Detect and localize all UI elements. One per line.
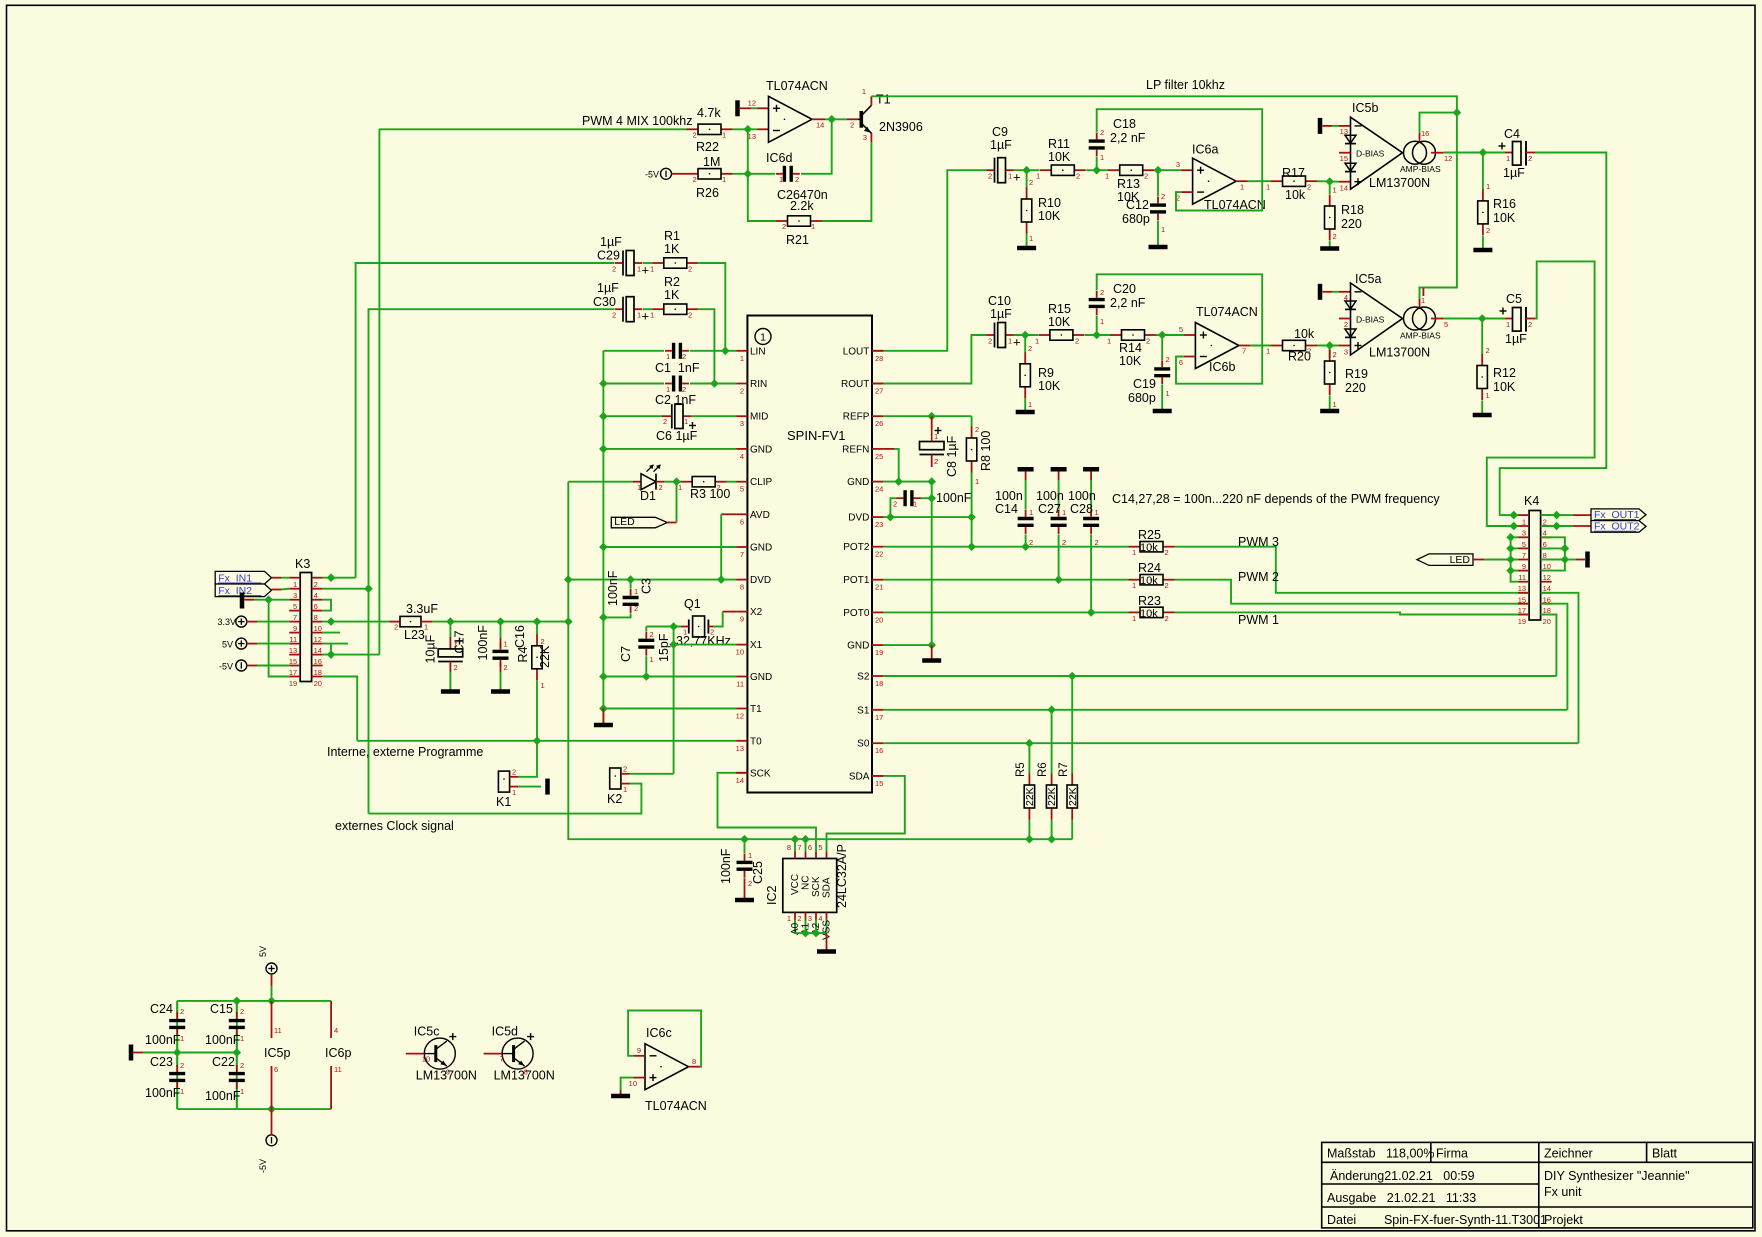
svg-text:1: 1 bbox=[1028, 400, 1032, 409]
svg-text:10K: 10K bbox=[1048, 315, 1071, 329]
svg-text:S2: S2 bbox=[857, 672, 870, 683]
resistor R10 to ground bbox=[1026, 170, 1028, 188]
wire gnd riser to K3 pin19 bbox=[269, 600, 290, 677]
svg-text:C18: C18 bbox=[1113, 117, 1136, 131]
svg-text:ROUT: ROUT bbox=[841, 379, 869, 390]
capacitor C26 470n bbox=[776, 173, 783, 175]
svg-text:1: 1 bbox=[240, 1087, 244, 1096]
node junction K4 pin1 left bbox=[1510, 512, 1517, 519]
wire 3.3V K3 pin10 to L23 bbox=[323, 621, 390, 623]
svg-text:IC5c: IC5c bbox=[414, 1025, 440, 1039]
svg-text:3: 3 bbox=[808, 914, 812, 923]
svg-text:C7: C7 bbox=[619, 646, 633, 662]
svg-text:1: 1 bbox=[637, 311, 641, 320]
power -5V supply bbox=[271, 1109, 273, 1122]
svg-text:PWM 1: PWM 1 bbox=[1238, 613, 1279, 627]
node junction top right cap column bbox=[233, 997, 240, 1004]
svg-text:R12: R12 bbox=[1493, 366, 1516, 380]
svg-text:27: 27 bbox=[875, 387, 883, 396]
wire R20 to IC5a + input bbox=[1317, 345, 1339, 347]
wire AVD to DVD rail bbox=[721, 513, 736, 515]
svg-text:POT2: POT2 bbox=[843, 542, 870, 553]
svg-text:2: 2 bbox=[1161, 192, 1165, 201]
svg-text:R9: R9 bbox=[1038, 366, 1054, 380]
svg-text:10: 10 bbox=[629, 1079, 637, 1088]
node junction R4 on rail bbox=[533, 618, 540, 625]
capacitor C16 100nF bbox=[500, 622, 502, 638]
svg-text:2: 2 bbox=[782, 222, 786, 231]
svg-text:2: 2 bbox=[934, 457, 938, 466]
svg-text:22K: 22K bbox=[1024, 787, 1036, 806]
wire IC5b output to C4 bbox=[1431, 152, 1444, 154]
capacitor C20 2.2nF branch bbox=[1096, 316, 1098, 336]
svg-text:2: 2 bbox=[1165, 548, 1169, 557]
svg-text:17: 17 bbox=[875, 713, 883, 722]
svg-text:10K: 10K bbox=[1119, 354, 1142, 368]
node junction caps mid left bbox=[174, 1049, 181, 1056]
svg-text:1: 1 bbox=[1029, 508, 1033, 517]
svg-text:1: 1 bbox=[1266, 347, 1270, 356]
svg-text:C6 1µF: C6 1µF bbox=[656, 429, 698, 443]
wire DVD23 row bbox=[883, 516, 971, 518]
wire R14 to IC6b + bbox=[1156, 334, 1184, 336]
svg-text:100nF: 100nF bbox=[205, 1033, 241, 1047]
wire gnd to K3 pin5 bbox=[254, 599, 289, 601]
svg-text:C4: C4 bbox=[1504, 127, 1520, 141]
node junctions K4 right loop bbox=[1561, 545, 1568, 552]
svg-text:C20: C20 bbox=[1113, 282, 1136, 296]
svg-text:1: 1 bbox=[1008, 337, 1012, 346]
svg-text:4: 4 bbox=[818, 914, 822, 923]
svg-text:SDA: SDA bbox=[849, 771, 870, 782]
svg-text:1: 1 bbox=[760, 332, 766, 344]
svg-text:100nF: 100nF bbox=[145, 1086, 181, 1100]
svg-text:1: 1 bbox=[650, 265, 654, 274]
svg-text:Zeichner: Zeichner bbox=[1544, 1147, 1593, 1161]
SPIN pin 19 GND bbox=[872, 644, 883, 646]
K4 pins 15/16 bbox=[1518, 592, 1529, 594]
wire R3 to CLIP bbox=[727, 481, 736, 483]
ground below R10 bbox=[1026, 234, 1028, 247]
node junction R6 on S1 bbox=[1048, 706, 1055, 713]
node junction RIN bbox=[711, 380, 718, 387]
svg-text:IC2: IC2 bbox=[765, 886, 779, 906]
svg-text:C9: C9 bbox=[992, 125, 1008, 139]
K4 pins 1/2 bbox=[1518, 514, 1529, 516]
svg-text:2: 2 bbox=[1028, 344, 1032, 353]
svg-text:2: 2 bbox=[682, 385, 686, 394]
wire C30 left to K3/clock riser bbox=[369, 309, 615, 813]
svg-text:GND: GND bbox=[750, 672, 772, 683]
svg-text:7: 7 bbox=[740, 550, 744, 559]
connector K3 body bbox=[300, 573, 311, 682]
K4 pins 19/20 bbox=[1518, 614, 1529, 616]
svg-text:1µF: 1µF bbox=[1503, 166, 1525, 180]
wire R26 to C26 bbox=[733, 173, 776, 175]
svg-text:6: 6 bbox=[274, 1065, 278, 1074]
svg-text:26: 26 bbox=[875, 419, 883, 428]
svg-text:IC6p: IC6p bbox=[325, 1046, 351, 1060]
svg-text:1: 1 bbox=[740, 354, 744, 363]
svg-text:D-BIAS: D-BIAS bbox=[1356, 314, 1385, 324]
svg-text:1µF: 1µF bbox=[600, 235, 622, 249]
svg-text:5: 5 bbox=[818, 843, 822, 852]
wire MID row bbox=[603, 415, 662, 417]
svg-text:externes Clock signal: externes Clock signal bbox=[335, 819, 454, 833]
capacitor C12 680p to ground bbox=[1157, 170, 1159, 196]
svg-text:2: 2 bbox=[1528, 320, 1532, 329]
capacitor C13 100nF bbox=[897, 497, 904, 499]
SPIN pin 12 T1 bbox=[736, 708, 747, 710]
SPIN pin 18 S2 bbox=[872, 675, 883, 677]
svg-text:1: 1 bbox=[748, 851, 752, 860]
svg-text:2: 2 bbox=[454, 663, 458, 672]
wire PWM3 to K4 pin15 bbox=[1175, 547, 1530, 593]
resistor R8 100 bbox=[971, 416, 973, 427]
svg-text:7: 7 bbox=[1522, 551, 1526, 560]
svg-text:R23: R23 bbox=[1138, 594, 1161, 608]
svg-text:2: 2 bbox=[612, 265, 616, 274]
svg-text:2: 2 bbox=[1165, 614, 1169, 623]
wire PWM2 to K4 pin17 bbox=[1175, 580, 1530, 604]
wire GND11 row bbox=[603, 676, 736, 678]
svg-text:2: 2 bbox=[240, 1007, 244, 1016]
node junction K3 pin4 on clock riser bbox=[365, 585, 372, 592]
SPIN pin 28 LOUT bbox=[872, 350, 883, 352]
svg-text:SCK: SCK bbox=[750, 768, 771, 779]
svg-text:2: 2 bbox=[988, 172, 992, 181]
svg-text:100n: 100n bbox=[1036, 489, 1064, 503]
IC5p power pins bbox=[271, 1001, 273, 1038]
wire K2 pin2 to X1 riser bbox=[630, 773, 674, 775]
wire K3 pin16 to PWM riser bbox=[323, 654, 380, 656]
svg-text:+: + bbox=[642, 309, 650, 324]
K3 pins 3/4 bbox=[289, 588, 300, 590]
SPIN pin 11 GND bbox=[736, 676, 747, 678]
svg-text:5: 5 bbox=[740, 485, 744, 494]
svg-text:2: 2 bbox=[682, 352, 686, 361]
wire K3 pin12 stub wire bbox=[323, 632, 340, 634]
K4 left loop rows 5-13 bbox=[1511, 537, 1519, 581]
svg-text:2: 2 bbox=[634, 604, 638, 613]
wire 3.3V rail to riser bbox=[432, 621, 568, 623]
svg-text:5: 5 bbox=[1444, 320, 1448, 329]
svg-text:1: 1 bbox=[1095, 508, 1099, 517]
capacitor C8 1uF bbox=[931, 416, 933, 429]
capacitor C9 1uF bbox=[987, 169, 995, 171]
svg-text:R17: R17 bbox=[1282, 166, 1305, 180]
svg-text:10: 10 bbox=[422, 1055, 430, 1064]
svg-text:1: 1 bbox=[1035, 337, 1039, 346]
capacitor C5 1uF output bbox=[1505, 318, 1513, 320]
svg-text:1: 1 bbox=[1506, 154, 1510, 163]
node junction R8 bottom POT2 bbox=[968, 543, 975, 550]
svg-text:1: 1 bbox=[787, 914, 791, 923]
svg-text:C23: C23 bbox=[150, 1055, 173, 1069]
svg-text:-5V: -5V bbox=[645, 170, 659, 180]
wire GND7 row bbox=[603, 546, 736, 548]
capacitor C23 100nF bbox=[176, 1065, 178, 1072]
svg-text:C29: C29 bbox=[597, 249, 620, 263]
flag LED clip indicator bbox=[611, 517, 667, 528]
svg-text:22K: 22K bbox=[1067, 787, 1079, 806]
svg-text:2: 2 bbox=[1486, 346, 1490, 355]
decoupling cap C14 100n with top bar bbox=[1018, 467, 1034, 472]
svg-text:2: 2 bbox=[623, 765, 627, 774]
svg-text:10K: 10K bbox=[1493, 211, 1516, 225]
node junction R5 on bus bbox=[1026, 836, 1033, 843]
svg-text:IC5p: IC5p bbox=[264, 1046, 290, 1060]
svg-text:R4: R4 bbox=[516, 646, 530, 662]
svg-text:11: 11 bbox=[274, 1026, 282, 1035]
node junctions K4 left loop bbox=[1507, 534, 1514, 541]
svg-text:R10: R10 bbox=[1038, 196, 1061, 210]
wire K1 pin1 to ground bbox=[518, 786, 541, 788]
node junction feedback/R26 bbox=[744, 170, 751, 177]
svg-text:1: 1 bbox=[1506, 320, 1510, 329]
svg-text:2,2 nF: 2,2 nF bbox=[1110, 131, 1146, 145]
svg-text:10k: 10k bbox=[1285, 188, 1306, 202]
node junction R19 tap bbox=[1326, 342, 1333, 349]
svg-text:8: 8 bbox=[740, 583, 744, 592]
svg-text:9: 9 bbox=[740, 615, 744, 624]
svg-text:28: 28 bbox=[875, 354, 883, 363]
SPIN pin 26 REFP bbox=[872, 415, 883, 417]
wire GND19 row bbox=[883, 644, 931, 646]
svg-text:1: 1 bbox=[504, 640, 508, 649]
node junction C3 top bbox=[627, 576, 634, 583]
ground under IC2 bbox=[826, 933, 828, 949]
resistor R12 to ground bbox=[1481, 319, 1483, 355]
wire PWM4MIX to R22 bbox=[379, 128, 686, 130]
node junction C12 tap bbox=[1154, 167, 1161, 174]
svg-text:POT0: POT0 bbox=[843, 608, 870, 619]
svg-text:10: 10 bbox=[736, 648, 744, 657]
amp-bias current source IC5a bbox=[1404, 307, 1427, 330]
resistor R4 22K bbox=[536, 622, 538, 635]
node junction C19 tap bbox=[1159, 331, 1166, 338]
svg-text:2: 2 bbox=[748, 879, 752, 888]
svg-text:R15: R15 bbox=[1048, 302, 1071, 316]
wire mid gnd rail bbox=[143, 1052, 237, 1054]
svg-text:GND: GND bbox=[750, 444, 772, 455]
svg-text:1: 1 bbox=[1100, 317, 1104, 326]
svg-text:1µF: 1µF bbox=[990, 138, 1012, 152]
K3 pins 11/12 bbox=[289, 632, 300, 634]
svg-text:3: 3 bbox=[740, 419, 744, 428]
svg-text:10K: 10K bbox=[1493, 380, 1516, 394]
capacitor C24 100nF bbox=[176, 1012, 178, 1019]
wire K4 pin20 riser to S2 bbox=[1541, 615, 1557, 677]
svg-text:IC6a: IC6a bbox=[1192, 143, 1218, 157]
svg-text:1: 1 bbox=[454, 640, 458, 649]
svg-text:Änderung21.02.21 00:59: Änderung21.02.21 00:59 bbox=[1330, 1169, 1475, 1183]
wire PWM1 to K4 pin19 bbox=[1175, 612, 1530, 614]
K4 pins 13/14 bbox=[1518, 581, 1529, 583]
wire R2 to RIN riser bbox=[698, 309, 714, 383]
wire GND24 row bbox=[883, 481, 931, 483]
K4 pins 3/4 bbox=[1518, 525, 1529, 527]
resistor R9 to ground bbox=[1024, 335, 1026, 353]
svg-text:DVD: DVD bbox=[750, 575, 771, 586]
capacitor C7 15pF bbox=[646, 626, 673, 628]
svg-text:7: 7 bbox=[1242, 347, 1246, 356]
resistor R22 bbox=[687, 128, 699, 130]
svg-text:1: 1 bbox=[637, 483, 641, 492]
wire C29 left to K3 riser bbox=[356, 263, 615, 578]
wire IC6a feedback loop bbox=[1181, 191, 1193, 193]
title block frame bbox=[1322, 1142, 1753, 1228]
svg-text:2: 2 bbox=[663, 417, 667, 426]
svg-text:22: 22 bbox=[875, 550, 883, 559]
wire IC6c + input to ground bbox=[634, 1077, 646, 1079]
svg-text:LP filter 10khz: LP filter 10khz bbox=[1146, 78, 1225, 92]
node junction rail riser corner bbox=[565, 618, 572, 625]
node junction gnd riser K3 bbox=[265, 596, 272, 603]
svg-text:R18: R18 bbox=[1341, 203, 1364, 217]
svg-text:4: 4 bbox=[1344, 293, 1348, 302]
node junction C25 on bus bbox=[741, 836, 748, 843]
node junction A1 bbox=[802, 930, 809, 937]
svg-text:20: 20 bbox=[1543, 617, 1551, 626]
K3 pins 13/14 bbox=[289, 643, 300, 645]
node junction K4 pin4 right bbox=[1553, 522, 1560, 529]
wire PWM4MIX vertical from top row down to K3 pin16 area bbox=[378, 129, 380, 655]
svg-text:C19: C19 bbox=[1133, 377, 1156, 391]
svg-text:1: 1 bbox=[684, 417, 688, 426]
wire 5V into K3 pin13 bbox=[257, 643, 289, 645]
svg-text:-5V: -5V bbox=[219, 661, 233, 671]
svg-text:1: 1 bbox=[1421, 296, 1425, 305]
svg-text:22K: 22K bbox=[1046, 787, 1058, 806]
svg-text:2: 2 bbox=[1075, 337, 1079, 346]
IC2 pin 8 VCC bbox=[794, 851, 796, 858]
K3 pins 1/2 bbox=[289, 577, 300, 579]
svg-text:R25: R25 bbox=[1138, 528, 1161, 542]
node junction IC2 NC on bus bbox=[802, 836, 809, 843]
svg-text:IC6b: IC6b bbox=[1209, 360, 1235, 374]
SPIN pin 25 REFN bbox=[872, 448, 883, 450]
svg-text:S1: S1 bbox=[857, 705, 870, 716]
svg-text:2: 2 bbox=[659, 483, 663, 492]
svg-text:C14,27,28 = 100n...220 nF depe: C14,27,28 = 100n...220 nF depends of the… bbox=[1112, 492, 1440, 506]
resistor R21 bbox=[776, 220, 788, 222]
K3 staple rows 3-4 bbox=[323, 600, 331, 611]
capacitor C17 10uF polarized bbox=[449, 622, 451, 637]
svg-text:1: 1 bbox=[1107, 337, 1111, 346]
wire POT0 row to R23 bbox=[883, 611, 1128, 613]
svg-text:13: 13 bbox=[1518, 584, 1526, 593]
wire -5V into K3 pin17 bbox=[257, 665, 289, 667]
wire cap column connectors bbox=[176, 1001, 178, 1013]
svg-text:1: 1 bbox=[722, 131, 726, 140]
wire IC5b bias pin to top line bbox=[1419, 133, 1421, 141]
wire K3 pin2 to C29 riser bbox=[323, 577, 356, 579]
resistor R1 1K bbox=[652, 262, 664, 264]
svg-text:19: 19 bbox=[1518, 617, 1526, 626]
svg-text:D1: D1 bbox=[640, 489, 656, 503]
svg-text:3.3V: 3.3V bbox=[217, 617, 236, 627]
svg-text:2: 2 bbox=[1166, 355, 1170, 364]
K3 pins 19/20 bbox=[289, 676, 300, 678]
svg-text:5V: 5V bbox=[222, 639, 233, 649]
svg-text:1: 1 bbox=[1132, 581, 1136, 590]
svg-text:C16: C16 bbox=[513, 625, 527, 648]
svg-text:C14: C14 bbox=[995, 502, 1018, 516]
wire feedback vertical bbox=[747, 129, 749, 174]
wire S1 row bbox=[883, 709, 1567, 711]
wire D1 to R3 bbox=[664, 481, 681, 483]
svg-text:6: 6 bbox=[808, 843, 812, 852]
svg-text:1: 1 bbox=[1036, 172, 1040, 181]
node junction LED flag tap bbox=[673, 478, 680, 485]
svg-text:GND: GND bbox=[847, 641, 869, 652]
wire C30 to R2 bbox=[643, 308, 653, 310]
resistor R2 1K bbox=[652, 308, 664, 310]
svg-text:14: 14 bbox=[1340, 184, 1348, 193]
op-amp IC6b bbox=[1195, 323, 1239, 369]
svg-text:6: 6 bbox=[1179, 358, 1183, 367]
svg-text:7: 7 bbox=[500, 1055, 504, 1064]
wire IC6b feedback loop bbox=[1184, 356, 1196, 358]
svg-text:2: 2 bbox=[688, 265, 692, 274]
wire K3 pin20 to T0 riser bbox=[323, 677, 358, 741]
node junction K4 pin3 left bbox=[1510, 522, 1517, 529]
wire R15 to R14 bbox=[1085, 334, 1111, 336]
wire IC2 address pins common bbox=[795, 932, 827, 934]
svg-text:2N3906: 2N3906 bbox=[879, 120, 923, 134]
wire K4 pin1 from C4 route bbox=[1500, 513, 1518, 516]
svg-text:5: 5 bbox=[1522, 540, 1526, 549]
SPIN pin 15 SDA bbox=[872, 775, 883, 777]
svg-text:1: 1 bbox=[683, 628, 687, 637]
svg-text:3.3uF: 3.3uF bbox=[406, 602, 438, 616]
resistor R5 22K pullup bbox=[1028, 743, 1030, 773]
svg-text:1: 1 bbox=[650, 311, 654, 320]
svg-text:LED: LED bbox=[614, 516, 635, 528]
svg-text:5: 5 bbox=[1179, 325, 1183, 334]
IC2 24LC32A/P eeprom bbox=[783, 859, 837, 913]
node junction C28 on POT0 row bbox=[1088, 609, 1095, 616]
resistor R14 bbox=[1110, 334, 1122, 336]
svg-text:1: 1 bbox=[666, 352, 670, 361]
wire K4 pin2 to Fx_OUT1 bbox=[1541, 514, 1573, 516]
svg-text:2: 2 bbox=[1144, 172, 1148, 181]
svg-text:IC5b: IC5b bbox=[1352, 101, 1378, 115]
svg-text:S0: S0 bbox=[857, 739, 870, 750]
ground bar right of K4 bbox=[1565, 559, 1576, 561]
resistor R17 bbox=[1271, 180, 1283, 182]
node junction R18 tap bbox=[1326, 178, 1333, 185]
svg-text:REFN: REFN bbox=[842, 444, 869, 455]
node junction LIN bbox=[722, 347, 729, 354]
ground bar at IC5a - input bbox=[1318, 284, 1323, 300]
svg-text:680p: 680p bbox=[1122, 212, 1150, 226]
svg-text:C3: C3 bbox=[640, 578, 654, 594]
svg-text:C22: C22 bbox=[212, 1055, 235, 1069]
node junction at IC6d output bbox=[828, 116, 835, 123]
capacitor C25 100nF bbox=[744, 839, 746, 853]
connector K4 body bbox=[1529, 511, 1541, 621]
svg-text:LED: LED bbox=[1450, 554, 1471, 566]
svg-text:12: 12 bbox=[736, 712, 744, 721]
svg-text:1: 1 bbox=[541, 681, 545, 690]
wire K1 pin2 to T0 bbox=[518, 741, 537, 777]
svg-text:2: 2 bbox=[975, 425, 979, 434]
svg-text:220: 220 bbox=[1341, 217, 1362, 231]
svg-text:1: 1 bbox=[1008, 172, 1012, 181]
SPIN pin 13 T0 bbox=[736, 740, 747, 742]
